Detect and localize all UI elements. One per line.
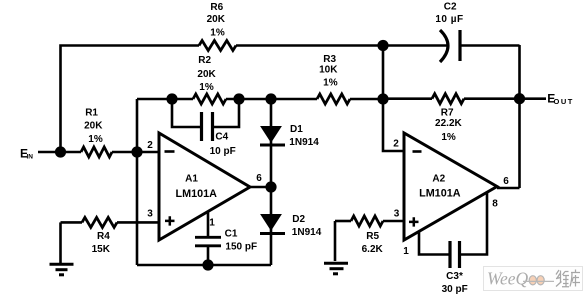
junction node top rail/C2 xyxy=(377,40,388,51)
wire: Ein input line xyxy=(38,151,81,154)
diode D2 1N914 xyxy=(260,215,285,234)
svg-text:3: 3 xyxy=(394,209,400,220)
svg-text:R2: R2 xyxy=(198,55,211,66)
svg-text:C2: C2 xyxy=(444,1,457,12)
op-amp A1 LM101A xyxy=(159,133,250,240)
svg-text:1N914: 1N914 xyxy=(289,137,319,148)
svg-text:C1: C1 xyxy=(225,229,238,240)
A2 plus sign xyxy=(409,217,419,226)
svg-text:1: 1 xyxy=(403,246,409,257)
watermark oo xyxy=(529,276,536,285)
svg-text:20K: 20K xyxy=(84,121,103,132)
wire: R4 line to A1 pin3 xyxy=(61,221,83,224)
capacitor C3 right plate xyxy=(458,241,461,268)
svg-text:LM101A: LM101A xyxy=(175,188,217,200)
resistor R7 xyxy=(432,94,464,104)
svg-text:30 pF: 30 pF xyxy=(442,284,468,295)
svg-text:1%: 1% xyxy=(210,27,225,38)
svg-text:3: 3 xyxy=(147,209,153,220)
junction node R2 right/C4 xyxy=(233,93,244,104)
capacitor C3 left stub (pin1 of A2) xyxy=(419,232,449,255)
svg-text:IN: IN xyxy=(27,154,34,161)
junction node R3/C2/A2 pin2 xyxy=(377,93,388,104)
svg-text:R3: R3 xyxy=(323,54,336,65)
svg-text:1N914: 1N914 xyxy=(292,227,322,238)
svg-text:C3*: C3* xyxy=(446,271,463,282)
resistor R3 xyxy=(317,94,350,104)
watermark strike line xyxy=(523,280,554,282)
capacitor C4 right plate xyxy=(211,112,214,141)
svg-text:1%: 1% xyxy=(199,82,214,93)
wire: A1 output to node xyxy=(250,186,271,189)
wire: R3 to node x=383 xyxy=(350,98,383,101)
svg-text:6: 6 xyxy=(256,173,262,184)
wire: A2 output to right vertical xyxy=(497,187,520,190)
resistor R5 xyxy=(351,216,383,226)
capacitor C3 right stub (pin8 of A2) xyxy=(461,193,487,255)
resistor R6 xyxy=(199,41,236,51)
resistor R1 xyxy=(81,147,112,157)
capacitor C2 curved plate xyxy=(440,30,448,62)
junction node C1 bottom rail xyxy=(202,259,213,270)
resistor R2 xyxy=(193,94,226,104)
capacitor C1 bottom plate xyxy=(195,244,221,247)
A2 minus sign xyxy=(413,150,422,153)
svg-text:A2: A2 xyxy=(432,173,445,184)
wire: bottom feedback rail xyxy=(137,264,271,267)
svg-text:OUT: OUT xyxy=(554,97,574,106)
wire: feedback vertical x=137 xyxy=(136,99,139,265)
wire: left vertical + top rail left segment xyxy=(61,46,200,153)
wire: mid rail left xyxy=(137,98,193,101)
wire: R2 to R3 xyxy=(226,98,317,101)
ground (R5 side) xyxy=(324,263,348,274)
junction node A1 pin2 xyxy=(131,146,142,157)
svg-text:150 pF: 150 pF xyxy=(225,241,257,252)
svg-text:10 pF: 10 pF xyxy=(210,146,236,157)
svg-text:8: 8 xyxy=(492,199,498,210)
junction node A1 out/D1/D2 xyxy=(265,181,276,192)
watermark glyph wei xyxy=(556,270,569,287)
svg-text:15K: 15K xyxy=(92,244,111,255)
svg-text:R6: R6 xyxy=(210,2,223,13)
wire: R5 line to A2 pin3 xyxy=(335,220,351,223)
svg-text:2: 2 xyxy=(147,140,153,151)
svg-text:2: 2 xyxy=(393,139,399,150)
svg-text:LM101A: LM101A xyxy=(419,187,461,199)
svg-text:R1: R1 xyxy=(85,108,98,119)
svg-text:WeeQ: WeeQ xyxy=(487,269,529,289)
capacitor C4 left stub xyxy=(172,99,200,127)
wire: R1 to A1 pin2 xyxy=(112,151,159,154)
svg-text:A1: A1 xyxy=(185,173,198,184)
svg-text:1%: 1% xyxy=(88,134,103,145)
capacitor C1 top plate xyxy=(195,236,221,239)
wire: top rail middle (R6 to C2) xyxy=(236,44,448,47)
capacitor C4 left plate xyxy=(200,112,203,141)
svg-text:R5: R5 xyxy=(366,231,379,242)
svg-text:20K: 20K xyxy=(207,14,226,25)
svg-text:6: 6 xyxy=(503,176,509,187)
svg-text:22.2K: 22.2K xyxy=(435,118,462,129)
svg-text:10K: 10K xyxy=(319,65,338,76)
wire: R5 left down to ground xyxy=(334,221,337,261)
svg-text:D2: D2 xyxy=(292,214,305,225)
A1 plus sign xyxy=(165,216,175,225)
svg-text:6.2K: 6.2K xyxy=(362,244,384,255)
capacitor C1 bottom stub xyxy=(207,247,210,265)
wire: right vertical (Eout node) xyxy=(518,45,521,188)
A1 minus sign xyxy=(165,150,175,153)
wire: Eout rail with R7 xyxy=(383,97,432,100)
ground (R4 side) xyxy=(50,264,74,275)
svg-text:1: 1 xyxy=(209,218,215,229)
wire: R4 left down to ground xyxy=(59,222,62,263)
op-amp A2 LM101A xyxy=(404,133,497,240)
svg-text:10 µF: 10 µF xyxy=(435,14,463,25)
svg-text:20K: 20K xyxy=(197,69,216,80)
junction node Eout xyxy=(514,93,525,104)
svg-text:1%: 1% xyxy=(323,77,338,88)
wire: top rail right (C2 to right corner) xyxy=(460,44,520,47)
capacitor C4 right stub xyxy=(214,99,239,127)
svg-text:1%: 1% xyxy=(441,132,456,143)
capacitor C2 straight plate xyxy=(458,30,461,61)
svg-text:C4: C4 xyxy=(215,132,228,143)
diode D1 1N914 xyxy=(260,127,285,146)
svg-text:R4: R4 xyxy=(97,231,110,242)
resistor R4 xyxy=(82,217,117,227)
junction node R2 left/C4 xyxy=(166,93,177,104)
capacitor C1 top stub (pin1 of A1) xyxy=(207,212,210,236)
capacitor C3 left plate xyxy=(448,241,451,268)
svg-text:D1: D1 xyxy=(290,124,303,135)
junction node D1 top xyxy=(265,93,276,104)
watermark glyph ku xyxy=(570,270,580,287)
wire: diode branch vertical x=271 xyxy=(270,99,273,265)
wire: node x=383 down to A2 pin2 xyxy=(383,46,404,152)
junction node Ein/R1/feedback xyxy=(55,146,66,157)
watermark box xyxy=(484,267,583,291)
